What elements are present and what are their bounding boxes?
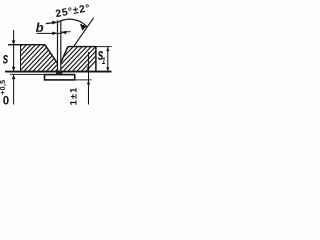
root bead fill between plates and strip — [56, 71, 63, 76]
strip bottom extension line to the right — [75, 79, 92, 81]
s dimension line — [13, 30, 15, 105]
root gap vertical lines — [57, 20, 59, 71]
angle second arm — [73, 18, 93, 47]
right plate outline — [61, 47, 96, 72]
angle arc left arrow (horizontal) — [46, 22, 57, 23]
svg-text:s: s — [3, 49, 9, 67]
angle arc — [58, 19, 87, 27]
strip top extension line to the left — [10, 73, 45, 75]
svg-text:1: 1 — [102, 56, 105, 66]
svg-text:+0,5: +0,5 — [0, 80, 7, 95]
1±1 dimension line — [88, 52, 90, 105]
top edge extension right (s1) — [96, 46, 112, 48]
s bottom arrowhead — [12, 67, 16, 71]
bottom edges of both plates — [5, 71, 112, 73]
right plate hatching — [30, 40, 116, 78]
s top arrowhead — [12, 40, 16, 44]
angle arc right arrowhead — [80, 24, 87, 31]
svg-text:b: b — [36, 20, 44, 35]
svg-text:0: 0 — [3, 95, 9, 107]
left plate hatching — [0, 40, 90, 76]
0+0.5 up arrowhead — [12, 75, 16, 79]
left plate outline — [8, 45, 58, 72]
backing strip — [45, 75, 75, 80]
b dimension line — [37, 32, 63, 34]
s1 dimension line — [107, 47, 109, 71]
svg-text:1±1: 1±1 — [68, 87, 79, 106]
